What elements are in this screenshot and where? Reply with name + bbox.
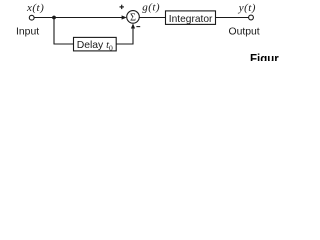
- summing junction U1: [127, 11, 140, 24]
- plus sign at summer input: [120, 6, 124, 8]
- arrowhead into summer bottom: [131, 23, 135, 28]
- wire from integrator to output node: [216, 17, 249, 19]
- svg-text:Delay t0: Delay t0: [77, 40, 113, 52]
- junction node dot: [52, 16, 56, 20]
- input node terminal circle: [29, 15, 34, 20]
- svg-text:g(t): g(t): [142, 2, 160, 14]
- feedback wire down from junction: [53, 18, 55, 45]
- output node terminal circle: [249, 15, 254, 20]
- svg-text:Output: Output: [229, 27, 260, 38]
- delay block: [74, 37, 117, 51]
- feedback wire from delay block: [116, 43, 133, 45]
- wire from summer to integrator: [139, 17, 165, 19]
- svg-text:Input: Input: [16, 27, 39, 38]
- integrator block: [166, 11, 216, 25]
- feedback wire to delay block: [54, 43, 74, 45]
- feedback wire up to summer: [132, 27, 134, 45]
- svg-text:x(t): x(t): [26, 2, 44, 14]
- svg-text:Figure: Figure: [250, 54, 279, 61]
- svg-text:Σ: Σ: [130, 13, 136, 24]
- svg-text:y(t): y(t): [238, 2, 256, 14]
- arrowhead into summing junction left: [122, 15, 127, 19]
- minus sign at summer feedback input: [136, 26, 140, 28]
- background: [0, 0, 279, 61]
- wire from input node to summing junction: [34, 17, 123, 19]
- svg-text:Integrator: Integrator: [169, 14, 213, 25]
